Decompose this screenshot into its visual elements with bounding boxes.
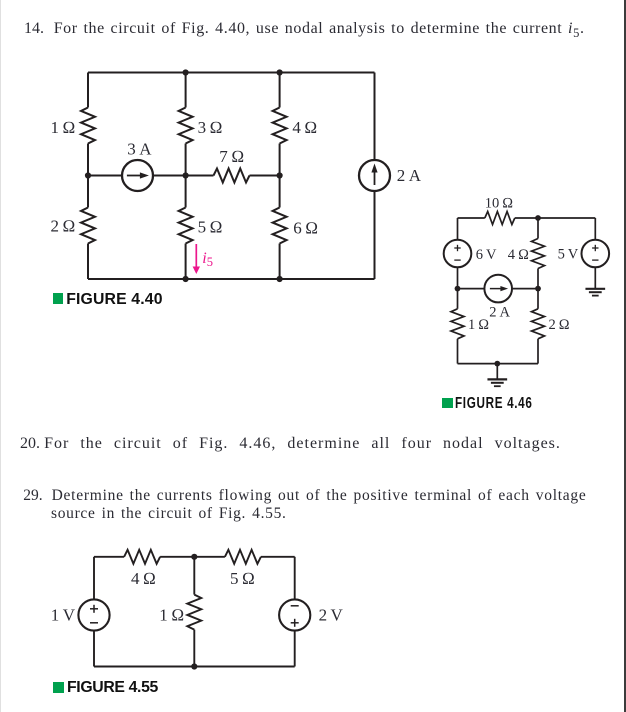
svg-text:2 Ω: 2 Ω [549,317,570,333]
svg-text:10 Ω: 10 Ω [485,195,514,211]
svg-text:5 Ω: 5 Ω [230,569,255,588]
svg-text:2 A: 2 A [489,304,510,320]
svg-text:3 Ω: 3 Ω [198,118,223,137]
svg-text:4 Ω: 4 Ω [131,569,156,588]
svg-text:7 Ω: 7 Ω [219,147,244,166]
svg-text:2 V: 2 V [319,605,344,624]
svg-text:5 V: 5 V [558,246,579,262]
svg-text:6 Ω: 6 Ω [293,218,318,237]
svg-text:5 Ω: 5 Ω [198,218,223,237]
svg-text:2 Ω: 2 Ω [51,216,76,235]
svg-text:1 V: 1 V [51,605,76,624]
svg-text:4 Ω: 4 Ω [292,118,317,137]
svg-text:6 V: 6 V [476,247,497,263]
svg-text:2 A: 2 A [397,166,422,185]
svg-text:3 A: 3 A [127,139,152,158]
svg-text:i5: i5 [202,250,213,269]
svg-text:1 Ω: 1 Ω [468,317,489,333]
svg-text:4 Ω: 4 Ω [508,247,529,263]
svg-text:1 Ω: 1 Ω [159,605,184,624]
svg-text:1 Ω: 1 Ω [51,118,76,137]
